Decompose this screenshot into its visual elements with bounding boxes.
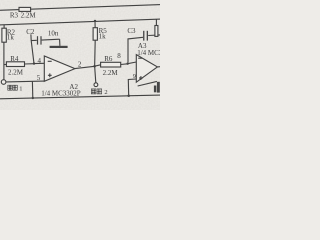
- wire pin5: [6, 80, 44, 83]
- terminal output1: [1, 80, 6, 85]
- scan grain: [0, 0, 160, 110]
- op-amp A2: [44, 56, 75, 81]
- wire pin4 into A2: [34, 62, 44, 64]
- svg-text:R3: R3: [10, 11, 19, 19]
- op-amp A3 non-inverting input sign: [139, 77, 143, 79]
- op-amp A2 inverting input sign: [48, 60, 52, 62]
- label output2 (Chinese glyphs drawn as strokes): [91, 89, 107, 96]
- wire A3 output: [157, 66, 160, 68]
- wire pin5 branch to bottom rail: [31, 82, 33, 99]
- resistor R7: [155, 26, 158, 37]
- node bus junction for R5: [94, 20, 96, 22]
- svg-text:C2: C2: [26, 28, 35, 36]
- svg-text:1/4 MC3302P: 1/4 MC3302P: [137, 49, 160, 57]
- node A2 out junction: [93, 65, 96, 68]
- svg-text:1k: 1k: [7, 34, 14, 42]
- svg-text:8: 8: [117, 52, 121, 60]
- resistor R4: [4, 63, 7, 65]
- label output1 (Chinese glyphs drawn as strokes): [8, 85, 23, 92]
- capacitor C3: [128, 37, 143, 62]
- resistor R2: [2, 28, 6, 42]
- svg-text:5: 5: [37, 74, 41, 82]
- svg-text:2.2M: 2.2M: [8, 68, 24, 76]
- svg-text:2: 2: [104, 89, 107, 96]
- svg-text:C3: C3: [127, 27, 136, 35]
- svg-text:R4: R4: [10, 55, 19, 63]
- svg-text:2.2M: 2.2M: [103, 69, 119, 77]
- node pin8 junction: [126, 63, 128, 65]
- resistor R3: [19, 7, 31, 11]
- svg-text:9: 9: [133, 73, 136, 80]
- resistor R6: [95, 65, 101, 66]
- op-amp A3 inverting input sign: [138, 57, 142, 59]
- wire pin9: [128, 79, 136, 96]
- capacitor C2: [31, 39, 37, 41]
- wire C2 branch vertical: [31, 34, 34, 63]
- battery B1: [138, 81, 157, 86]
- op-amp A2 non-inverting input sign: [48, 74, 52, 76]
- svg-text:10n: 10n: [48, 29, 59, 37]
- wire left vertical (R2 leads down to R4 node and output1 terminal): [3, 25, 5, 29]
- svg-text:1k: 1k: [99, 32, 107, 40]
- node rail junction right: [127, 95, 130, 98]
- svg-text:4: 4: [38, 57, 42, 65]
- svg-text:2: 2: [78, 61, 82, 69]
- wire R4 to pin4 node: [25, 63, 35, 65]
- svg-text:2.2M: 2.2M: [21, 11, 37, 19]
- terminal output2: [94, 83, 98, 87]
- op-amp A3: [136, 55, 157, 83]
- wire top feedback bus: [0, 5, 162, 11]
- svg-text:R6: R6: [104, 55, 113, 63]
- wire second bus V+: [0, 19, 162, 25]
- ground: [59, 39, 61, 46]
- node pin4 junction: [33, 62, 35, 64]
- wire pin8 into A3: [128, 62, 137, 64]
- node rail junction left: [32, 97, 34, 99]
- svg-text:1/4 MC3302P: 1/4 MC3302P: [41, 89, 81, 97]
- wire to output2 terminal: [95, 66, 96, 83]
- wire bottom rail: [0, 95, 162, 99]
- wire A2 output: [75, 66, 95, 68]
- svg-text:1: 1: [19, 85, 22, 92]
- resistor R5: [94, 21, 96, 28]
